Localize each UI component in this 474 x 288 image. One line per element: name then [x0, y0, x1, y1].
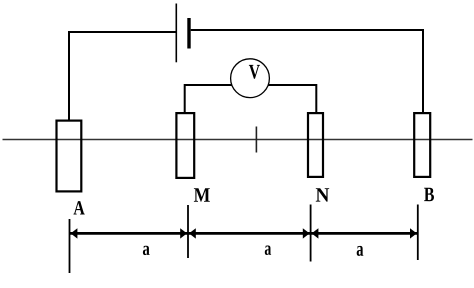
arrowhead right of M pointing left	[189, 228, 196, 238]
label a span A-M	[143, 246, 150, 255]
dimension tick at M	[187, 205, 189, 258]
wire voltmeter to electrode N	[268, 85, 316, 113]
voltmeter U1 circle	[231, 59, 270, 98]
label N	[316, 188, 329, 201]
electrode M	[176, 113, 194, 178]
dimension line N to B	[311, 232, 417, 235]
dimension tick at B	[417, 205, 419, 261]
arrowhead at A pointing left	[71, 228, 78, 238]
dimension tick at N	[310, 205, 312, 262]
wire voltmeter to electrode M	[185, 85, 232, 113]
electrode N	[308, 113, 323, 177]
label a span N-B	[357, 246, 364, 256]
electrode A	[57, 121, 82, 192]
label A	[74, 201, 85, 214]
wire battery right terminal horizontal	[191, 29, 423, 31]
label M	[194, 188, 210, 201]
arrowhead right of N pointing left	[312, 228, 319, 238]
arrowhead left of M pointing right	[180, 228, 187, 238]
wire down to electrode A	[68, 31, 70, 121]
wire down to electrode B	[422, 29, 424, 113]
battery B1 negative plate (short thick)	[187, 18, 190, 49]
label a span M-N	[265, 245, 271, 255]
center tick on ground line	[255, 127, 257, 153]
arrowhead at B pointing right	[410, 228, 417, 238]
wire battery left terminal horizontal	[68, 31, 176, 33]
dimension line A to M	[70, 232, 188, 235]
dimension tick at A	[69, 219, 71, 273]
arrowhead left of N pointing right	[303, 228, 310, 238]
ground surface line	[3, 139, 473, 141]
voltmeter label V	[249, 65, 260, 79]
electrode B	[414, 113, 430, 177]
battery B1 positive plate (long thin)	[175, 4, 177, 63]
label B	[424, 188, 434, 201]
dimension line M to N	[189, 232, 311, 235]
